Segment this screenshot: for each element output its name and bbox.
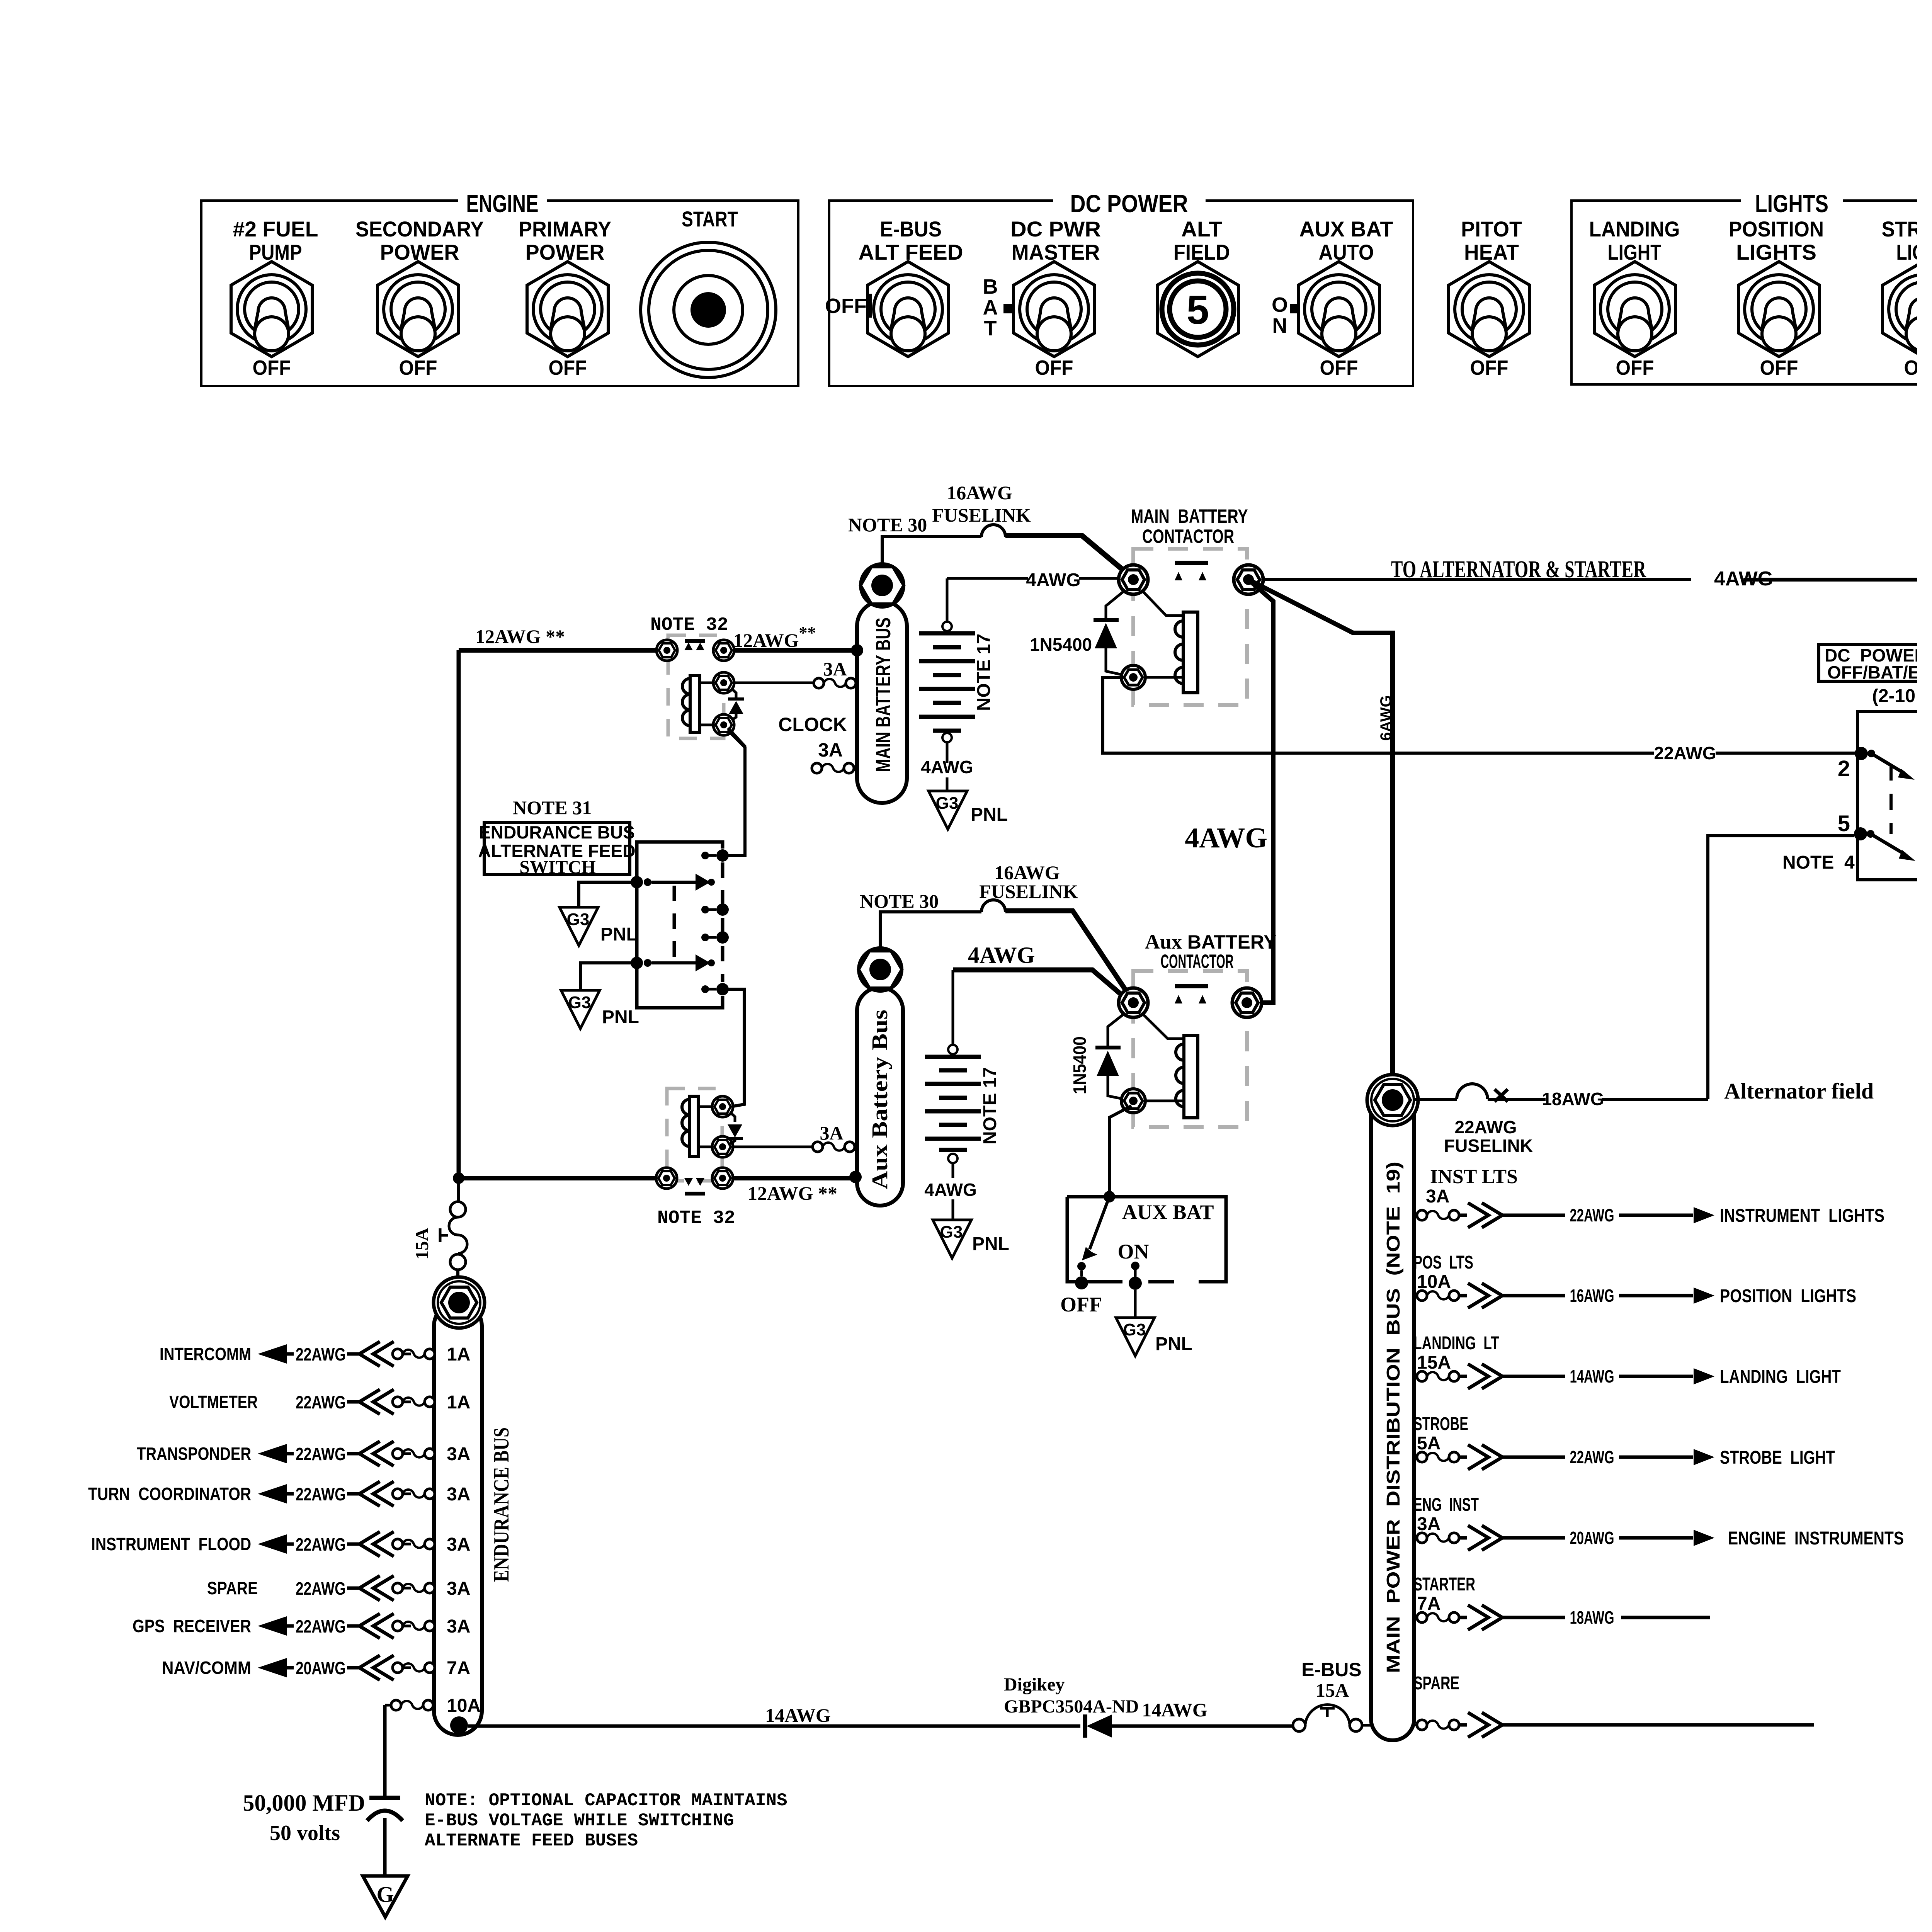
svg-text:PNL: PNL <box>600 924 638 945</box>
svg-text:4AWG: 4AWG <box>1185 822 1267 854</box>
svg-text:OFF: OFF <box>1616 356 1654 379</box>
svg-text:NOTE 30: NOTE 30 <box>860 890 939 912</box>
svg-text:3A: 3A <box>1426 1186 1449 1207</box>
svg-text:FUSELINK: FUSELINK <box>979 881 1078 902</box>
svg-text:O: O <box>1272 293 1288 316</box>
svg-text:CLOCK: CLOCK <box>778 714 847 735</box>
svg-text:OFF: OFF <box>1035 356 1073 379</box>
svg-text:16AWG: 16AWG <box>1570 1286 1614 1306</box>
svg-text:22AWG: 22AWG <box>1454 1117 1517 1137</box>
svg-text:POWER: POWER <box>526 240 605 264</box>
svg-text:20AWG: 20AWG <box>296 1658 346 1678</box>
svg-text:3A: 3A <box>823 658 847 680</box>
svg-text:A: A <box>983 296 998 319</box>
svg-text:STROBE: STROBE <box>1413 1414 1468 1434</box>
svg-text:AUX BAT: AUX BAT <box>1122 1201 1214 1224</box>
svg-text:LANDING LIGHT: LANDING LIGHT <box>1720 1367 1841 1387</box>
svg-text:INTERCOMM: INTERCOMM <box>160 1344 251 1364</box>
svg-text:1N5400: 1N5400 <box>1030 634 1092 655</box>
svg-text:POSITION: POSITION <box>1729 217 1824 241</box>
svg-text:NOTE 32: NOTE 32 <box>650 615 728 636</box>
svg-text:4AWG: 4AWG <box>968 942 1035 968</box>
svg-text:5A: 5A <box>1417 1433 1440 1454</box>
svg-text:1N5400: 1N5400 <box>1070 1036 1090 1094</box>
svg-text:5: 5 <box>1187 287 1209 333</box>
svg-text:Aux BATTERY: Aux BATTERY <box>1145 930 1276 953</box>
svg-text:OFF: OFF <box>1060 1293 1102 1316</box>
svg-text:LIGHT: LIGHT <box>1608 240 1662 264</box>
svg-text:50 volts: 50 volts <box>270 1821 340 1845</box>
svg-text:SPARE: SPARE <box>1413 1673 1459 1694</box>
svg-text:AUTO: AUTO <box>1319 240 1374 264</box>
svg-text:ALT FEED: ALT FEED <box>859 240 963 264</box>
svg-text:NAV/COMM: NAV/COMM <box>162 1658 251 1678</box>
svg-text:3A: 3A <box>820 1122 843 1144</box>
svg-text:20AWG: 20AWG <box>1570 1528 1614 1548</box>
svg-text:22AWG: 22AWG <box>1570 1205 1614 1225</box>
svg-text:7A: 7A <box>1417 1594 1440 1614</box>
svg-text:HEAT: HEAT <box>1464 240 1519 264</box>
svg-text:E-BUS: E-BUS <box>1301 1659 1362 1680</box>
svg-text:DC PWR: DC PWR <box>1010 217 1101 241</box>
svg-text:FUSELINK: FUSELINK <box>1444 1136 1533 1156</box>
svg-text:N: N <box>1272 314 1287 337</box>
svg-text:E-BUS: E-BUS <box>880 217 942 241</box>
svg-text:LANDING LT: LANDING LT <box>1413 1333 1499 1354</box>
svg-text:4AWG: 4AWG <box>921 757 973 777</box>
svg-text:PNL: PNL <box>1155 1334 1192 1354</box>
svg-text:5: 5 <box>1838 811 1850 836</box>
svg-text:22AWG: 22AWG <box>296 1616 346 1636</box>
svg-text:22AWG: 22AWG <box>296 1534 346 1554</box>
svg-text:VOLTMETER: VOLTMETER <box>169 1392 258 1412</box>
svg-text:TO ALTERNATOR & STARTER: TO ALTERNATOR & STARTER <box>1391 556 1646 583</box>
svg-text:3A: 3A <box>447 1444 470 1464</box>
svg-text:T: T <box>984 317 997 340</box>
svg-text:Alternator field: Alternator field <box>1724 1078 1874 1104</box>
svg-text:E-BUS VOLTAGE WHILE SWITCHING: E-BUS VOLTAGE WHILE SWITCHING <box>425 1811 734 1831</box>
svg-text:FIELD: FIELD <box>1173 240 1230 264</box>
svg-text:NOTE 32: NOTE 32 <box>657 1208 735 1229</box>
svg-text:OFF/BAT/E: OFF/BAT/E <box>1827 662 1920 682</box>
svg-text:MAIN BATTERY: MAIN BATTERY <box>1131 505 1248 527</box>
svg-text:STROBE LIGHT: STROBE LIGHT <box>1720 1447 1835 1468</box>
svg-text:PNL: PNL <box>971 804 1008 825</box>
svg-text:SPARE: SPARE <box>207 1578 258 1598</box>
svg-text:ENG INST: ENG INST <box>1413 1495 1479 1515</box>
svg-text:ENGINE INSTRUMENTS: ENGINE INSTRUMENTS <box>1728 1528 1904 1549</box>
svg-text:PITOT: PITOT <box>1461 217 1522 241</box>
svg-text:OFF: OFF <box>825 294 867 318</box>
svg-text:GBPC3504A-ND: GBPC3504A-ND <box>1004 1696 1139 1717</box>
svg-text:START: START <box>682 207 738 231</box>
svg-text:12AWG **: 12AWG ** <box>748 1182 837 1204</box>
svg-text:TURN COORDINATOR: TURN COORDINATOR <box>88 1484 251 1504</box>
svg-text:DC POWER: DC POWER <box>1070 190 1188 218</box>
svg-text:OFF: OFF <box>1760 356 1798 379</box>
svg-text:22AWG: 22AWG <box>296 1578 346 1599</box>
svg-text:PNL: PNL <box>972 1234 1009 1254</box>
svg-text:10A: 10A <box>447 1696 481 1716</box>
svg-text:CONTACTOR: CONTACTOR <box>1142 526 1234 547</box>
svg-text:LIGHTS: LIGHTS <box>1755 190 1828 218</box>
svg-text:INSTRUMENT FLOOD: INSTRUMENT FLOOD <box>91 1534 251 1554</box>
svg-text:ENDURANCE BUS: ENDURANCE BUS <box>479 822 635 842</box>
svg-text:FUSELINK: FUSELINK <box>932 504 1031 526</box>
svg-text:NOTE 31: NOTE 31 <box>513 797 592 818</box>
svg-text:AUX BAT: AUX BAT <box>1299 217 1393 241</box>
svg-text:MASTER: MASTER <box>1012 240 1100 264</box>
svg-text:MAIN BATTERY BUS: MAIN BATTERY BUS <box>872 617 895 772</box>
svg-text:ALTERNATE FEED BUSES: ALTERNATE FEED BUSES <box>425 1831 638 1851</box>
svg-text:PRIMARY: PRIMARY <box>519 217 611 241</box>
svg-text:TRANSPONDER: TRANSPONDER <box>137 1444 251 1464</box>
svg-text:3A: 3A <box>818 739 843 761</box>
svg-text:NOTE 30: NOTE 30 <box>848 514 927 536</box>
svg-text:POSITION LIGHTS: POSITION LIGHTS <box>1720 1286 1856 1306</box>
svg-text:4AWG: 4AWG <box>924 1180 976 1200</box>
svg-text:22AWG: 22AWG <box>1570 1447 1614 1467</box>
svg-text:12AWG **: 12AWG ** <box>475 626 565 647</box>
svg-text:ENGINE: ENGINE <box>466 190 539 218</box>
svg-text:PUMP: PUMP <box>249 240 302 264</box>
svg-text:POS LTS: POS LTS <box>1413 1252 1473 1273</box>
svg-text:1A: 1A <box>447 1344 470 1365</box>
svg-text:3A: 3A <box>447 1578 470 1599</box>
svg-text:Digikey: Digikey <box>1004 1674 1065 1695</box>
svg-text:10A: 10A <box>1417 1272 1451 1292</box>
svg-text:18AWG: 18AWG <box>1570 1607 1614 1628</box>
svg-text:NOTE 17: NOTE 17 <box>980 1067 1000 1145</box>
svg-text:50,000 MFD: 50,000 MFD <box>243 1790 365 1816</box>
svg-text:LANDING: LANDING <box>1589 217 1680 241</box>
svg-text:POWER: POWER <box>380 240 459 264</box>
svg-text:MAIN POWER DISTRIBUTION BUS: MAIN POWER DISTRIBUTION BUS (NOTE 19) <box>1383 1162 1404 1673</box>
svg-text:LIGHTS: LIGHTS <box>1736 240 1816 264</box>
svg-text:OFF: OFF <box>1470 356 1509 379</box>
svg-text:OFF: OFF <box>399 356 437 379</box>
svg-text:OFF: OFF <box>549 356 587 379</box>
svg-text:INST LTS: INST LTS <box>1430 1166 1518 1188</box>
svg-text:22AWG: 22AWG <box>296 1344 346 1364</box>
svg-text:NOTE: OPTIONAL CAPACITOR MAINT: NOTE: OPTIONAL CAPACITOR MAINTAINS <box>425 1791 787 1811</box>
svg-text:ON: ON <box>1118 1240 1149 1263</box>
svg-text:Aux Battery Bus: Aux Battery Bus <box>867 1010 892 1189</box>
svg-text:SECONDARY: SECONDARY <box>355 217 484 241</box>
svg-text:1A: 1A <box>447 1392 470 1413</box>
svg-text:14AWG: 14AWG <box>1570 1366 1614 1386</box>
svg-text:CONTACTOR: CONTACTOR <box>1161 951 1234 972</box>
svg-text:OFF: OFF <box>1320 356 1358 379</box>
svg-text:22AWG: 22AWG <box>296 1392 346 1412</box>
svg-text:3A: 3A <box>1417 1514 1440 1534</box>
svg-text:3A: 3A <box>447 1484 470 1505</box>
svg-text:15A: 15A <box>412 1228 432 1260</box>
svg-text:NOTE 17: NOTE 17 <box>974 634 994 711</box>
svg-text:(2-10: (2-10 <box>1872 686 1915 706</box>
svg-text:15A: 15A <box>1316 1679 1349 1701</box>
svg-text:7A: 7A <box>447 1658 470 1679</box>
svg-text:NOTE 4: NOTE 4 <box>1782 852 1855 873</box>
svg-text:3A: 3A <box>447 1616 470 1637</box>
svg-text:2: 2 <box>1838 756 1850 781</box>
svg-text:GPS RECEIVER: GPS RECEIVER <box>133 1616 251 1636</box>
svg-text:15A: 15A <box>1417 1352 1451 1373</box>
svg-text:SWITCH: SWITCH <box>519 857 595 878</box>
svg-text:14AWG: 14AWG <box>765 1704 830 1726</box>
svg-text:PNL: PNL <box>602 1007 639 1027</box>
svg-text:3A: 3A <box>447 1534 470 1555</box>
svg-text:16AWG: 16AWG <box>994 862 1060 883</box>
svg-text:G: G <box>376 1882 394 1907</box>
svg-text:22AWG: 22AWG <box>296 1484 346 1504</box>
svg-text:INSTRUMENT LIGHTS: INSTRUMENT LIGHTS <box>1720 1206 1884 1226</box>
svg-text:18AWG: 18AWG <box>1542 1089 1604 1109</box>
svg-text:#2 FUEL: #2 FUEL <box>233 217 318 241</box>
svg-text:4AWG: 4AWG <box>1026 570 1080 590</box>
svg-text:B: B <box>983 275 998 298</box>
svg-text:STARTER: STARTER <box>1413 1574 1475 1595</box>
svg-text:14AWG: 14AWG <box>1142 1699 1207 1721</box>
svg-text:22AWG: 22AWG <box>296 1444 346 1464</box>
svg-text:ALT: ALT <box>1181 217 1222 241</box>
svg-text:6AWG: 6AWG <box>1378 695 1395 741</box>
svg-text:16AWG: 16AWG <box>947 482 1012 503</box>
svg-text:ENDURANCE BUS: ENDURANCE BUS <box>490 1427 514 1582</box>
svg-text:OFF: OFF <box>253 356 291 379</box>
svg-text:22AWG: 22AWG <box>1654 743 1716 763</box>
